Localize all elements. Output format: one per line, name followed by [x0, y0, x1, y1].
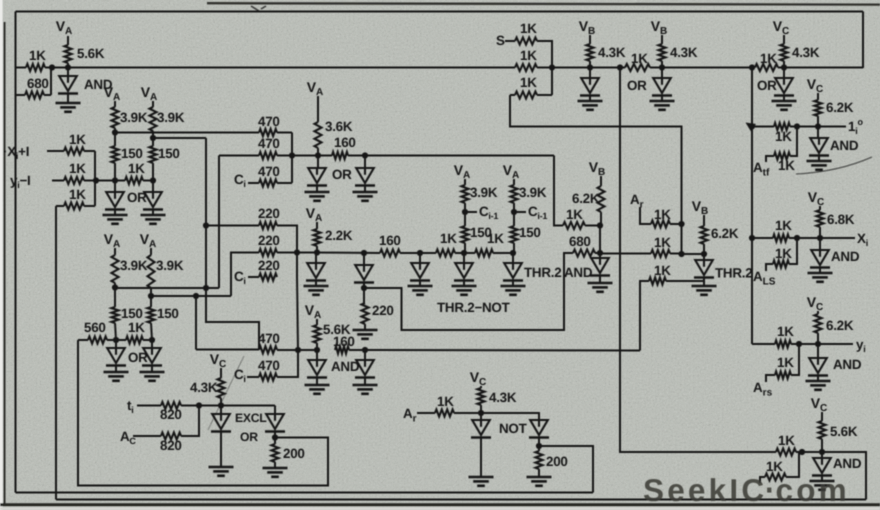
wire OR1-out row y133 — [115, 132, 259, 134]
node Ci-1 #2 — [511, 209, 526, 215]
ground (NOT #1) — [469, 437, 494, 486]
label THR.2-NOT — [437, 300, 511, 315]
svg-text:OR: OR — [240, 430, 258, 444]
input label Xi+1 — [3, 144, 29, 161]
node 470#4/riser — [295, 347, 301, 353]
resistor 1K (S top) — [505, 21, 552, 95]
supply VA (3.9K #4) — [140, 231, 157, 255]
input label Ars — [753, 380, 773, 399]
node OR3 — [113, 337, 119, 343]
node bus D3 — [417, 250, 423, 256]
node 820 junction — [196, 402, 202, 408]
supply VA (2.2K) — [306, 205, 323, 229]
resistor 1K (OR3/OR4) — [126, 320, 152, 344]
ground (1i0) — [807, 155, 832, 170]
diode bus D3 — [410, 253, 430, 281]
resistor 150 #2 — [150, 138, 180, 181]
ground (AND mid-right) — [588, 275, 613, 292]
resistor 200 (EXCL) — [272, 431, 305, 468]
svg-text:820: 820 — [160, 407, 182, 422]
wire riser x196 — [195, 296, 197, 350]
supply VC (OR cell) — [773, 18, 790, 44]
node 3.9K#4 bottom — [148, 293, 154, 299]
svg-text:6.2K: 6.2K — [826, 100, 854, 115]
input label Ci #3 — [234, 367, 246, 384]
supply VC (NOT) — [470, 369, 487, 388]
svg-text:AND: AND — [830, 138, 859, 153]
svg-text:AND: AND — [331, 359, 360, 374]
svg-text:470: 470 — [258, 331, 280, 346]
svg-text:1K: 1K — [69, 161, 86, 176]
wire OR2-out row y138 — [153, 137, 206, 139]
svg-text:SeekIC⋅com: SeekIC⋅com — [643, 472, 850, 508]
wire riser x206 — [206, 138, 259, 350]
svg-text:1K: 1K — [775, 246, 792, 261]
ground (NOT 200) — [527, 477, 552, 486]
svg-text:3.6K: 3.6K — [325, 119, 353, 134]
watermark SeekIC.com — [643, 472, 850, 508]
resistor 1K (between OR diodes) — [125, 161, 145, 184]
resistor 150 (Ci-1 #1) — [462, 212, 492, 253]
scan artifact swoosh — [796, 157, 872, 174]
node NOT top — [478, 410, 484, 416]
node bottom a — [799, 449, 805, 455]
wire 470 right bus to OR row — [277, 155, 332, 157]
svg-text:470: 470 — [258, 114, 280, 129]
resistor 470 #5 (Ci) — [247, 350, 298, 381]
svg-text:S: S — [496, 33, 505, 48]
wire feedback riser x56 — [55, 206, 57, 500]
resistor 160 (bus) — [379, 233, 401, 257]
resistor 220 #3 (Ci) — [248, 258, 280, 281]
resistor 1K (Xi+1) — [47, 132, 86, 155]
ground (VB2) — [650, 95, 675, 110]
resistor 470 #1 — [258, 114, 280, 136]
svg-text:160: 160 — [333, 334, 355, 349]
svg-text:3.9K: 3.9K — [120, 258, 148, 273]
svg-text:AND: AND — [833, 456, 862, 471]
svg-text:1K: 1K — [631, 51, 648, 66]
wire bottom AND box — [802, 452, 866, 500]
resistor 3.9K #2 — [150, 107, 185, 138]
resistor 1K (yi a) — [775, 324, 799, 348]
resistor 6.2K (1i0) — [815, 100, 854, 127]
svg-text:200: 200 — [546, 454, 568, 469]
diode bus D4 — [454, 253, 474, 281]
svg-text:1K: 1K — [437, 394, 454, 409]
diode AND (yi) — [808, 344, 862, 376]
svg-text:160: 160 — [334, 135, 356, 150]
diode OR row #1 — [307, 156, 352, 186]
node 470 junction — [289, 152, 295, 158]
diode NOT #1 — [471, 413, 528, 438]
ground (Xi) — [808, 267, 833, 282]
ground (bus D1) — [304, 280, 329, 295]
resistor 4.3K (VB2) — [659, 44, 698, 68]
diode bus D5 THR.2 — [503, 253, 561, 281]
resistor 1K (Ar) — [640, 207, 682, 228]
svg-text:150: 150 — [121, 146, 143, 161]
svg-text:220: 220 — [372, 303, 394, 318]
svg-text:1K: 1K — [775, 218, 792, 233]
svg-text:1K: 1K — [520, 21, 537, 36]
node riser/1i0 row (arrow junction) — [746, 123, 757, 132]
node OR4 — [149, 337, 155, 343]
supply VB (THR.2 right) — [692, 198, 709, 226]
resistor 150 (Ci-1 #2) — [511, 212, 541, 253]
resistor 470 #3 (Ci) — [248, 164, 292, 187]
svg-text:470: 470 — [258, 358, 280, 373]
diode AND mid #1 — [307, 350, 360, 378]
wire long riser x620 — [620, 68, 776, 453]
wire bus seg1 — [317, 252, 380, 255]
input label yi-1 — [10, 173, 31, 190]
wire riser x219 — [218, 156, 220, 289]
node at 1K/680 junction — [49, 64, 55, 70]
node 1i0 a — [794, 123, 800, 129]
resistor 1K (yi b) — [766, 344, 799, 382]
svg-text:NOT: NOT — [499, 421, 528, 436]
ground (OR #2) — [141, 209, 166, 224]
resistor 4.3K (NOT) — [478, 388, 517, 413]
svg-text:470: 470 — [258, 136, 280, 151]
supply VC (bottom AND) — [811, 395, 828, 421]
resistor 1K (S bottom) — [510, 75, 552, 99]
svg-text:160: 160 — [379, 233, 401, 248]
resistor 3.9K #4 — [148, 255, 184, 296]
svg-text:1K: 1K — [775, 129, 792, 144]
svg-text:150: 150 — [157, 306, 179, 321]
diode THR.2 right — [694, 254, 752, 281]
svg-text:150: 150 — [121, 306, 143, 321]
resistor 4.3K (VC) — [781, 44, 820, 68]
svg-text:4.3K: 4.3K — [190, 380, 218, 395]
node x752 top — [749, 64, 755, 70]
resistor 1K (Xi a) — [752, 218, 797, 242]
node 2.2K bus — [314, 249, 320, 255]
diode bus D2 — [354, 253, 374, 283]
wire 470#1 right — [277, 133, 292, 184]
svg-text:1K: 1K — [520, 75, 537, 90]
diode (VB1) — [580, 68, 600, 96]
resistor 470 #4 — [258, 331, 317, 353]
supply VA (Ci-1 #2) — [503, 162, 520, 185]
svg-text:560: 560 — [84, 320, 106, 335]
svg-text:OR: OR — [757, 78, 777, 93]
supply VC (yi) — [807, 294, 824, 314]
wire riser corner into yi row — [752, 343, 775, 345]
resistor 6.2K (THR.2) — [701, 226, 739, 254]
resistor 3.9K (Ci-1 #1) — [462, 185, 498, 212]
ground (VC OR) — [772, 95, 797, 110]
wire OR row to Ci-1 corner — [348, 155, 554, 157]
resistor 4.3K (EXCL OR) — [190, 378, 225, 406]
label Ci-1 #1 — [479, 204, 498, 221]
wire 1i0 out — [797, 126, 846, 128]
diode bus D1 — [306, 253, 326, 281]
ground (AND mid #2) — [353, 377, 378, 394]
svg-text:EXCL: EXCL — [235, 411, 267, 425]
resistor 160 (OR row) — [332, 135, 356, 159]
node at 5.6K/diode junction — [65, 64, 71, 70]
wire Ci-1 row corner — [554, 156, 563, 226]
svg-text:5.6K: 5.6K — [830, 424, 858, 439]
supply VB (OR cell 2) — [651, 18, 668, 44]
resistor 6.8K (Xi) — [817, 210, 855, 238]
wire S-bottom link row127 — [510, 95, 682, 254]
resistor 5.6K (top-left) — [65, 45, 105, 68]
wire main row y68 seg1 — [16, 67, 27, 69]
node x206 at 288 row — [203, 285, 209, 291]
ground (bus D4) — [452, 280, 477, 295]
svg-text:1K: 1K — [128, 161, 145, 176]
resistor 1K (1i0 a) — [752, 123, 797, 144]
svg-text:AND: AND — [564, 265, 593, 280]
node VB2 — [659, 64, 665, 70]
ground (EXCL 200) — [263, 468, 288, 477]
resistor 150 #4 — [148, 296, 179, 340]
node VC OR — [781, 64, 787, 70]
node bus D4 — [461, 250, 467, 256]
ground (OR row #1) — [305, 185, 330, 201]
node 3.9K#2 bottom — [150, 135, 156, 141]
diode OR #3 — [106, 340, 148, 366]
wire to OR2 — [143, 180, 153, 182]
resistor 5.6K (bottom) — [819, 421, 858, 452]
svg-text:1K: 1K — [440, 231, 457, 246]
ground (EXCL #1) — [209, 431, 234, 476]
svg-text:6.2K: 6.2K — [572, 191, 600, 206]
ground (THR.2 right) — [692, 277, 717, 295]
wire NOT box — [539, 446, 593, 493]
resistor 3.9K (Ci-1 #2) — [511, 185, 547, 212]
resistor 5.6K (mid) — [314, 322, 351, 350]
supply VC (Xi) — [808, 189, 825, 210]
svg-text:3.9K: 3.9K — [470, 185, 498, 200]
resistor 1K (bus b) — [475, 231, 504, 257]
resistor 1K (to AND node) — [563, 207, 600, 229]
svg-text:2.2K: 2.2K — [325, 228, 353, 243]
svg-text:1K: 1K — [654, 263, 671, 278]
wire 288 row — [115, 287, 219, 289]
node 5.6K/AND — [314, 347, 320, 353]
diode OR row #2 — [355, 156, 375, 186]
node Ci-1 #1 — [462, 209, 477, 215]
input label Ar (mid) — [630, 192, 644, 211]
resistor 200 (NOT) — [536, 437, 568, 477]
resistor 560 — [78, 320, 126, 344]
wire yi-1 to node — [84, 180, 96, 182]
input label Atf — [753, 160, 770, 179]
resistor 1K (VB2) — [625, 51, 755, 71]
svg-text:3.9K: 3.9K — [157, 110, 185, 125]
resistor 1K (1i0 b) — [766, 127, 797, 174]
node VB1 — [587, 64, 593, 70]
node input junction — [93, 177, 99, 183]
svg-text:1K: 1K — [128, 320, 145, 335]
resistor 150 #1 — [112, 133, 143, 181]
wire row 68 mid — [537, 67, 625, 69]
svg-text:680: 680 — [27, 76, 49, 91]
svg-text:1K: 1K — [777, 355, 794, 370]
diode OR #4 — [142, 340, 162, 366]
ground (220 vertical) — [353, 330, 378, 339]
diode OR #1 — [105, 181, 147, 210]
svg-text:4.3K: 4.3K — [670, 45, 698, 60]
svg-text:THR.2: THR.2 — [524, 265, 561, 280]
label Ci-1 #2 — [528, 204, 547, 221]
wire OR1 bus — [96, 180, 125, 182]
svg-text:150: 150 — [470, 225, 492, 240]
resistor 6.2K (left) — [572, 186, 605, 226]
wire left border — [15, 12, 17, 493]
wire AND row right — [349, 349, 640, 352]
resistor 1K (top-left) — [26, 48, 46, 71]
node OR2 — [150, 177, 156, 183]
resistor 2.2K — [314, 228, 353, 253]
node EXCL #2 cathode — [272, 434, 278, 440]
ground (OR #3) — [104, 365, 129, 381]
node riser/Xi row — [749, 235, 755, 241]
svg-text:6.2K: 6.2K — [826, 318, 854, 333]
wire 350 row left — [196, 349, 259, 351]
node 296/riser — [193, 293, 199, 299]
ground (bus D5) — [501, 280, 526, 295]
wire right border segment — [862, 12, 864, 69]
supply VA (3.6K) — [307, 79, 324, 103]
node bottom out — [819, 449, 825, 455]
input label Ci #1 — [234, 172, 246, 189]
svg-text:820: 820 — [160, 438, 182, 453]
ground (OR #4) — [140, 365, 165, 381]
node AND row diode2 — [362, 347, 368, 353]
node x682/254 — [678, 251, 684, 257]
diode AND (mid-right) — [564, 226, 610, 281]
ground (OR #1) — [103, 209, 128, 224]
svg-text:220: 220 — [258, 206, 280, 221]
output label yi — [856, 337, 865, 354]
node THR2 top — [701, 251, 707, 257]
wire bus seg4 — [493, 252, 513, 254]
ground (VB1) — [578, 95, 603, 110]
diode AND (Xi) — [810, 238, 860, 268]
resistor 3.9K #3 — [112, 255, 148, 288]
svg-text:1K: 1K — [778, 158, 795, 173]
svg-text:3.9K: 3.9K — [156, 258, 184, 273]
svg-text:470: 470 — [258, 164, 280, 179]
svg-text:1K: 1K — [654, 207, 671, 222]
svg-text:6.8K: 6.8K — [827, 212, 855, 227]
ground (AND mid #1) — [305, 377, 330, 394]
svg-text:OR: OR — [332, 167, 352, 182]
node x620 top — [617, 64, 623, 70]
input label Ar (NOT) — [403, 406, 417, 425]
resistor 220 #2 (main bus) — [231, 233, 317, 296]
node 3.6K bottom — [315, 152, 321, 158]
node bus D2 — [361, 250, 367, 256]
resistor 680 (top-left) — [16, 68, 52, 99]
node Ar junction — [678, 221, 684, 227]
node OR row diode2 — [362, 152, 368, 158]
svg-text:220: 220 — [258, 233, 280, 248]
scan artifact mark (top) — [251, 6, 266, 11]
resistor 1K (mid c) — [640, 263, 704, 351]
svg-text:4.3K: 4.3K — [792, 45, 820, 60]
node EXCL top — [218, 402, 224, 408]
svg-text:1K: 1K — [760, 51, 777, 66]
node 3.9K#1 bottom — [112, 129, 118, 135]
diode NOT #2 — [529, 420, 549, 438]
resistor 3.6K — [315, 103, 353, 156]
wire EXCL top row — [199, 406, 275, 415]
resistor 160 (AND row) — [333, 334, 355, 354]
wire bus seg3 — [455, 252, 475, 254]
node x206 at 220 row — [203, 222, 209, 228]
diode AND (top-left) — [58, 68, 113, 94]
diode AND (1i0) — [809, 127, 859, 156]
node yi out — [815, 341, 821, 347]
resistor 1K (yi-1) — [52, 161, 86, 184]
supply VA (top-left) — [56, 18, 73, 45]
resistor 4.3K (VB1) — [587, 44, 626, 68]
supply VA (Ci-1 #1) — [454, 162, 471, 185]
node 220 mid-bus — [294, 249, 300, 255]
svg-text:OR: OR — [627, 78, 647, 93]
wire NOT to diode2 — [481, 413, 539, 420]
svg-text:yi−I: yi−I — [10, 173, 31, 190]
svg-text:1K: 1K — [69, 132, 86, 147]
svg-text:1K: 1K — [778, 433, 795, 448]
svg-text:220: 220 — [258, 258, 280, 273]
resistor 1K (bottom b) — [760, 452, 799, 483]
output label 1i0 — [848, 117, 863, 136]
svg-text:3.9K: 3.9K — [519, 185, 547, 200]
resistor 1K (Xi b) — [766, 238, 797, 271]
supply VA (3.9K #2) — [141, 84, 158, 107]
supply VA (5.6K mid) — [305, 302, 322, 325]
input label AC — [120, 429, 136, 446]
ground (bus D3) — [408, 280, 433, 295]
resistor 220 #1 — [206, 206, 297, 277]
svg-text:THR.2−NOT: THR.2−NOT — [437, 300, 511, 315]
svg-text:AND: AND — [831, 249, 860, 264]
svg-text:1K: 1K — [520, 48, 537, 63]
node yi a — [796, 341, 802, 347]
node OR1 left — [112, 177, 118, 183]
resistor 820 #1 — [137, 402, 199, 422]
resistor 3.9K #1 — [112, 107, 148, 133]
supply VC (1i0) — [807, 76, 824, 100]
node 680/diode — [597, 250, 603, 256]
input label Ci #2 — [234, 269, 246, 286]
diode (VB2) — [627, 68, 672, 96]
resistor 680 (mid) — [569, 234, 600, 257]
scan artifact diagonal (EXCL area) — [208, 356, 244, 430]
input label ti — [127, 398, 133, 415]
node 1i0 out — [815, 123, 821, 129]
supply VB (OR cell 1) — [579, 18, 596, 44]
svg-text:1K: 1K — [29, 48, 46, 63]
wire bottom rail y499 — [56, 499, 866, 501]
svg-text:1K: 1K — [777, 324, 794, 339]
svg-text:6.2K: 6.2K — [711, 226, 739, 241]
resistor 1K (NOT) — [417, 394, 481, 417]
svg-text:5.6K: 5.6K — [77, 46, 105, 61]
resistor 1K (feedback from bottom rail) — [56, 181, 95, 210]
svg-text:AND: AND — [833, 357, 862, 372]
resistor 820 #2 — [133, 406, 199, 454]
node D2 cathode — [361, 285, 367, 291]
